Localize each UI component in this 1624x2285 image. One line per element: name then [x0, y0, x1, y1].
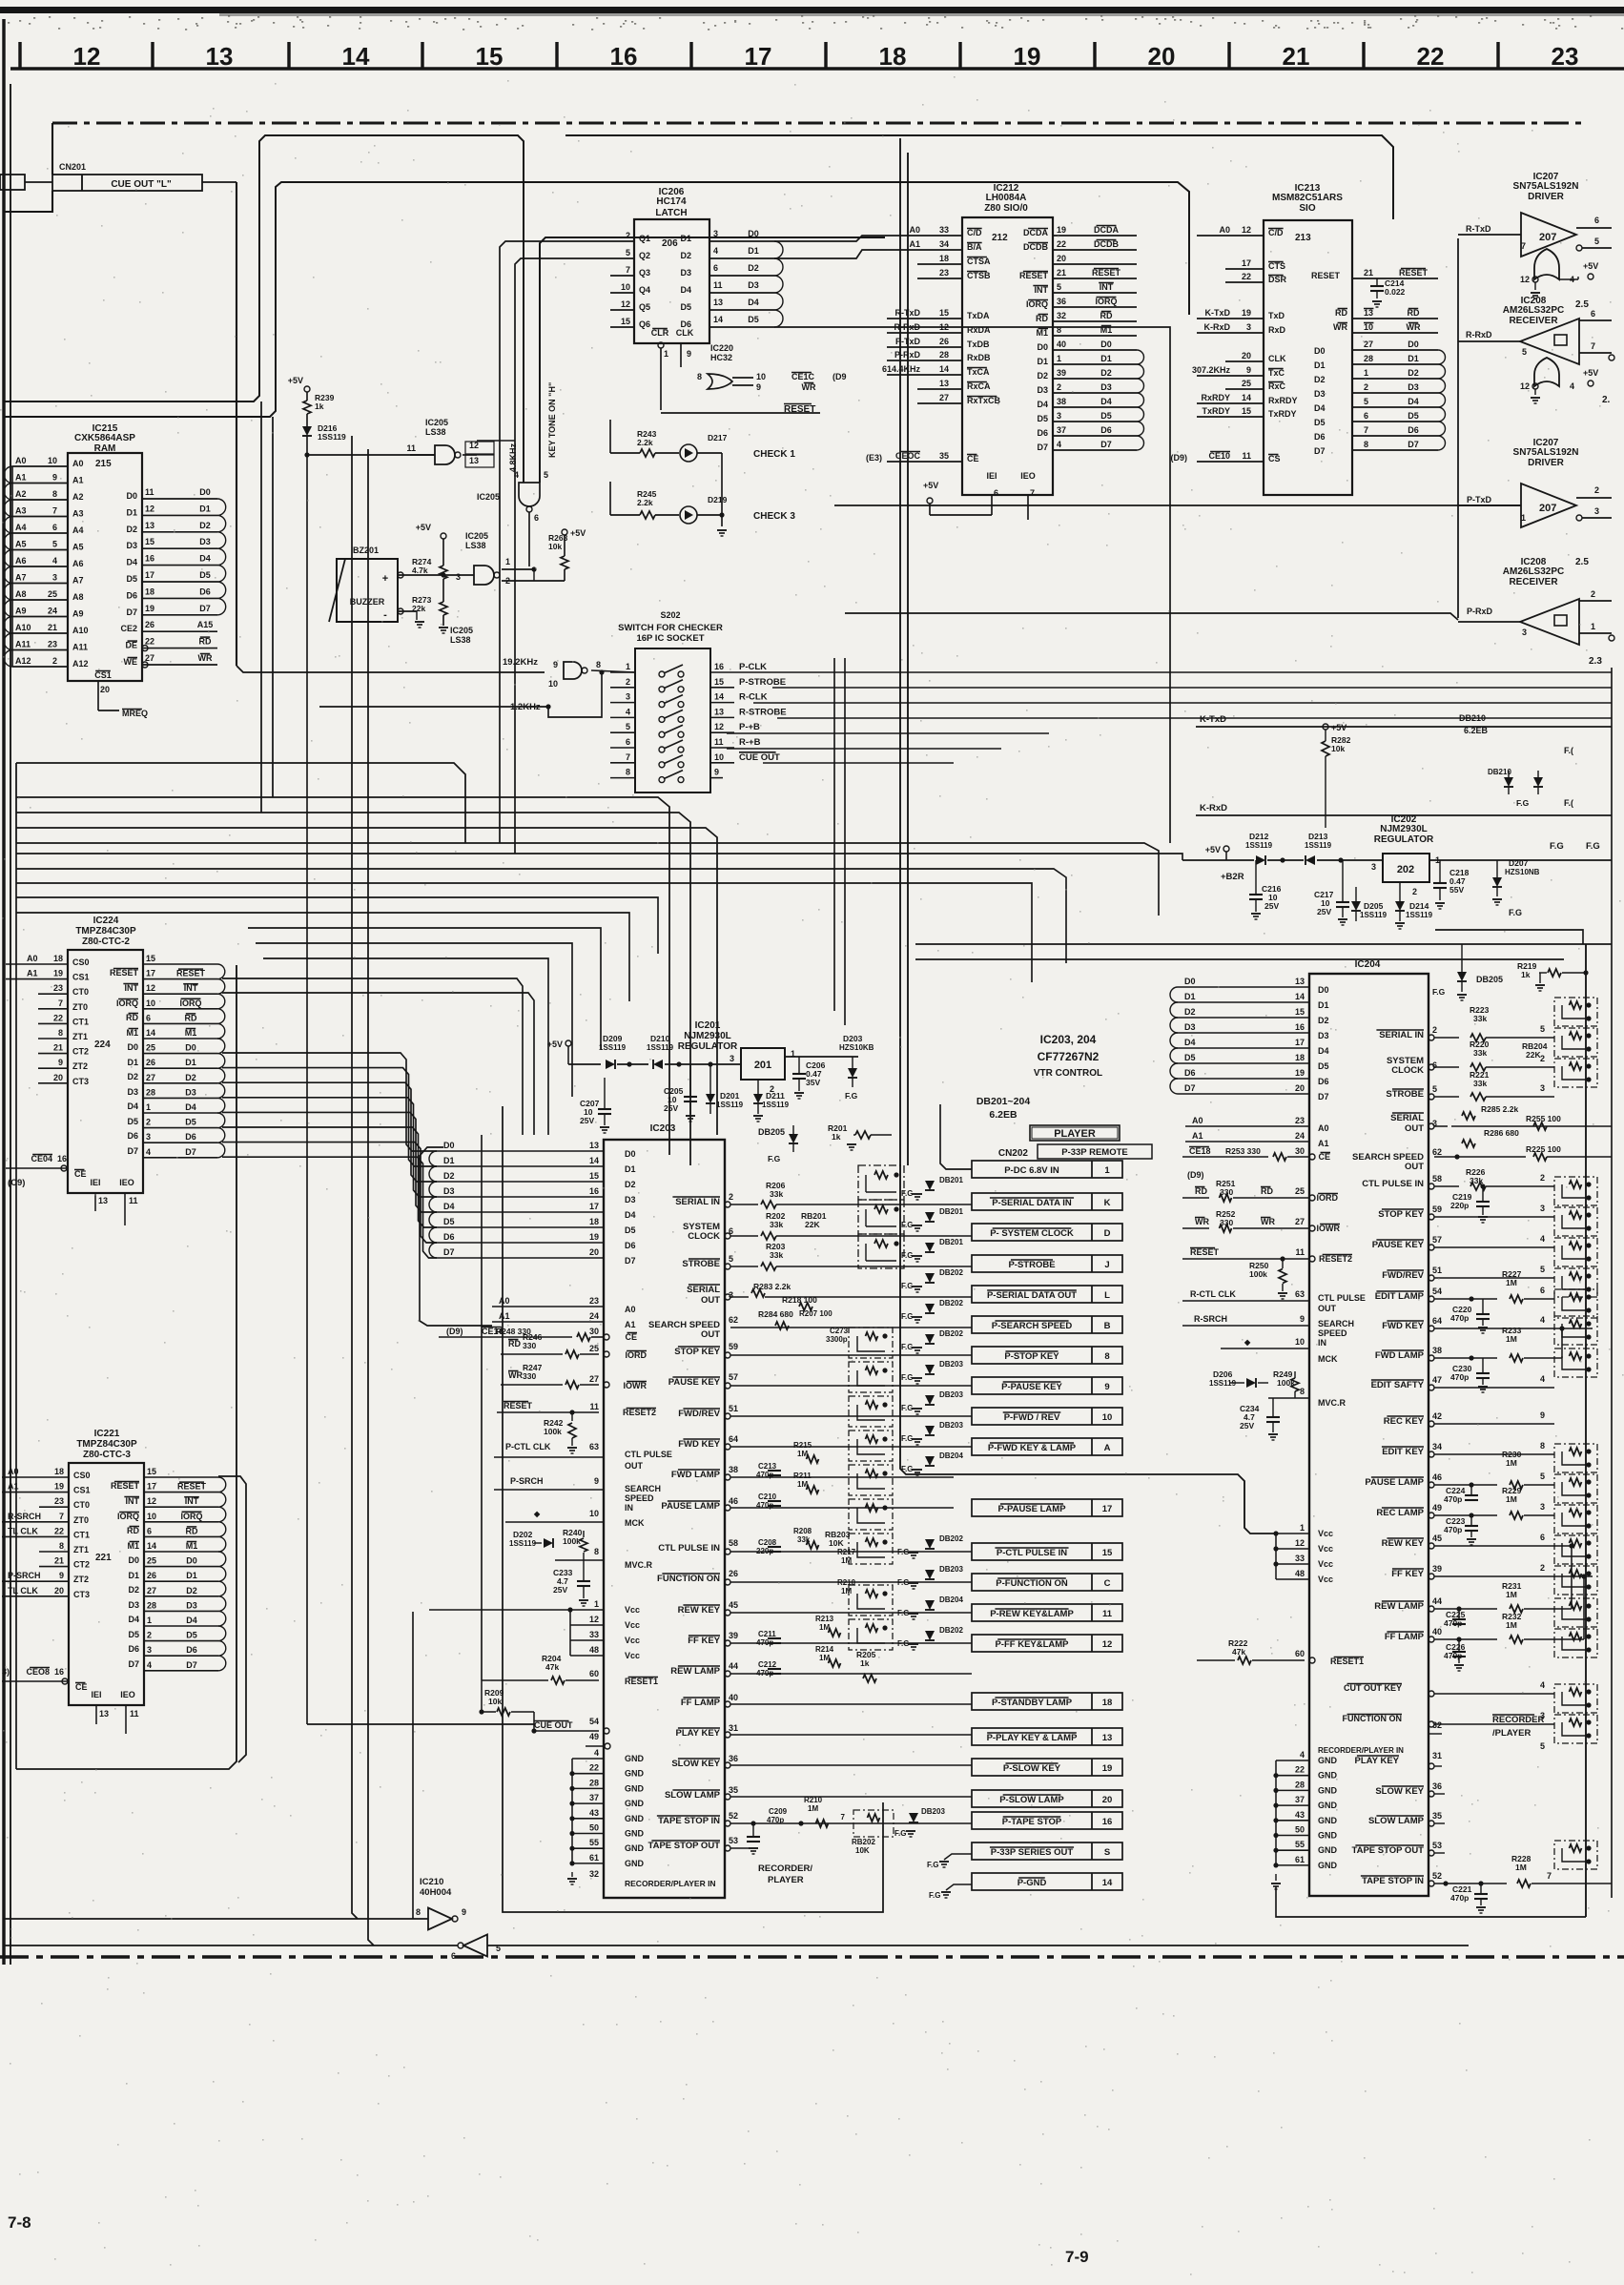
svg-text:5: 5: [1364, 397, 1368, 406]
svg-text:470p: 470p: [1450, 1372, 1469, 1382]
svg-text:20: 20: [1102, 1795, 1113, 1805]
svg-text:GND: GND: [1318, 1861, 1338, 1870]
svg-text:CTSB: CTSB: [967, 271, 991, 280]
svg-text:13: 13: [1364, 308, 1373, 318]
svg-text:2.5: 2.5: [1575, 299, 1589, 310]
svg-text:STOP KEY: STOP KEY: [674, 1347, 720, 1357]
svg-text:1M: 1M: [841, 1556, 852, 1565]
svg-text:RxTxCB: RxTxCB: [967, 396, 1001, 405]
bottom-left wire 2: [3, 1918, 5, 1920]
svg-text:18: 18: [589, 1217, 599, 1226]
svg-text:CEO8: CEO8: [26, 1667, 50, 1677]
svg-text:TMPZ84C30P: TMPZ84C30P: [75, 926, 136, 937]
svg-text:D6: D6: [186, 1645, 197, 1655]
wire P-STROBE: [772, 687, 1612, 689]
svg-text:Vcc: Vcc: [1318, 1529, 1333, 1538]
svg-text:215: 215: [95, 459, 112, 469]
svg-text:A8: A8: [15, 589, 27, 599]
svg-text:7: 7: [1591, 341, 1595, 351]
svg-text:17: 17: [146, 969, 155, 978]
svg-text:INT: INT: [184, 983, 198, 993]
svg-text:R214: R214: [815, 1645, 834, 1654]
svg-text:D2: D2: [680, 251, 691, 260]
connector P-CTL PULSE IN pin 15: [972, 1543, 1122, 1560]
svg-text:A10: A10: [72, 626, 89, 635]
svg-text:IC205: IC205: [477, 492, 500, 502]
svg-text:RESET: RESET: [1092, 268, 1121, 278]
svg-text:16: 16: [1295, 1022, 1305, 1032]
svg-text:14: 14: [1242, 393, 1251, 402]
svg-text:D4: D4: [625, 1210, 636, 1220]
svg-text:K-TxD: K-TxD: [1200, 714, 1226, 725]
svg-text:100k: 100k: [1249, 1269, 1267, 1279]
svg-text:GND: GND: [625, 1843, 645, 1853]
svg-text:R-SRCH: R-SRCH: [1194, 1314, 1227, 1324]
svg-text:17: 17: [589, 1202, 599, 1211]
svg-text:19: 19: [1014, 42, 1041, 71]
ruler line: [10, 67, 1624, 70]
wire 19.2KHz feed: [410, 658, 427, 672]
svg-text:DB204: DB204: [939, 1595, 963, 1604]
svg-text:2: 2: [626, 677, 630, 687]
svg-text:RECORDER/PLAYER IN: RECORDER/PLAYER IN: [1318, 1746, 1404, 1755]
svg-text:4: 4: [146, 1147, 151, 1157]
connector CN201 stub: [0, 175, 25, 190]
svg-text:3): 3): [2, 1667, 10, 1677]
svg-text:15: 15: [1242, 406, 1251, 416]
bus curls IC224 right: [217, 964, 225, 979]
svg-text:RD: RD: [126, 1013, 138, 1022]
svg-text:A: A: [1104, 1443, 1111, 1453]
svg-text:DSR: DSR: [1268, 275, 1287, 284]
svg-text:27: 27: [1295, 1217, 1305, 1226]
svg-text:D6: D6: [1314, 432, 1326, 442]
svg-text:RD: RD: [186, 1526, 198, 1535]
svg-text:10: 10: [1295, 1337, 1305, 1347]
svg-text:4: 4: [52, 556, 57, 566]
svg-text:100k: 100k: [563, 1536, 581, 1546]
svg-text:P-DC 6.8V IN: P-DC 6.8V IN: [1004, 1165, 1059, 1176]
svg-text:R-TxD: R-TxD: [1466, 224, 1491, 234]
svg-text:CUE OUT "L": CUE OUT "L": [111, 179, 172, 190]
svg-text:LS38: LS38: [425, 427, 446, 437]
IC207a pin5: [1576, 245, 1582, 251]
vertical x455 system: [433, 1155, 435, 1612]
svg-text:F.G: F.G: [1516, 798, 1530, 808]
svg-text:TxC: TxC: [1268, 368, 1285, 378]
svg-text:CT0: CT0: [72, 987, 89, 997]
svg-text:63: 63: [589, 1442, 599, 1451]
svg-text:GND: GND: [1318, 1801, 1338, 1810]
svg-text:D3: D3: [127, 1087, 138, 1097]
svg-text:18: 18: [939, 254, 949, 263]
svg-text:S: S: [1104, 1847, 1110, 1858]
svg-text:D1: D1: [1184, 992, 1196, 1001]
svg-text:STROBE: STROBE: [1386, 1089, 1424, 1100]
svg-text:RxRDY: RxRDY: [1201, 393, 1230, 402]
svg-text:A5: A5: [15, 540, 27, 549]
svg-text:33: 33: [1295, 1554, 1305, 1563]
svg-text:REW KEY: REW KEY: [678, 1605, 721, 1616]
svg-text:27: 27: [146, 1073, 155, 1082]
svg-text:RESET1: RESET1: [1330, 1657, 1364, 1666]
svg-text:AM26LS32PC: AM26LS32PC: [1503, 566, 1564, 577]
svg-text:19: 19: [1057, 225, 1066, 235]
svg-text:37: 37: [589, 1793, 599, 1802]
svg-text:GND: GND: [625, 1783, 645, 1793]
svg-text:TxD: TxD: [1268, 311, 1285, 320]
svg-text:3: 3: [1246, 322, 1251, 332]
svg-text:5: 5: [1057, 282, 1061, 292]
svg-text:1: 1: [1057, 354, 1061, 363]
svg-text:+5V: +5V: [547, 1040, 563, 1049]
svg-text:23: 23: [48, 640, 57, 649]
svg-text:8: 8: [1104, 1351, 1109, 1362]
wire IC204 EDIT SAFTY: [1429, 1385, 1434, 1390]
svg-text:D6: D6: [1037, 428, 1048, 438]
svg-text:D2: D2: [185, 1073, 196, 1082]
svg-text:64: 64: [1432, 1316, 1442, 1326]
svg-text:D1: D1: [1408, 354, 1419, 363]
svg-text:2: 2: [1540, 1563, 1545, 1573]
svg-text:22: 22: [145, 637, 154, 647]
vertical wire serial column: [1457, 238, 1459, 618]
svg-text:HC174: HC174: [656, 196, 687, 207]
svg-text:P-SLOW LAMP: P-SLOW LAMP: [999, 1795, 1064, 1805]
svg-text:5: 5: [1540, 1024, 1545, 1034]
bracket vertical IC221: [218, 1476, 246, 1762]
svg-text:1: 1: [146, 1102, 151, 1112]
svg-text:OUT: OUT: [1405, 1162, 1424, 1172]
svg-text:D4: D4: [1318, 1046, 1329, 1056]
svg-text:+5V: +5V: [1331, 723, 1346, 732]
svg-text:2: 2: [1591, 589, 1595, 599]
wire CN201 frame: [51, 123, 53, 175]
svg-text:57: 57: [1432, 1235, 1442, 1245]
svg-text:39: 39: [729, 1631, 738, 1640]
svg-text:9: 9: [52, 473, 57, 483]
svg-text:D4: D4: [128, 1615, 139, 1624]
svg-text:13: 13: [99, 1709, 109, 1719]
svg-text:A2: A2: [72, 492, 84, 502]
ruler tick 16: [555, 42, 558, 69]
svg-text:12: 12: [714, 722, 724, 731]
svg-text:CS1: CS1: [72, 973, 90, 982]
wire bus mid 3: [16, 869, 1066, 963]
wire IC206 D0 to IC212 A0: [774, 236, 887, 241]
svg-text:P-PAUSE LAMP: P-PAUSE LAMP: [997, 1504, 1066, 1514]
svg-text:34: 34: [1432, 1442, 1442, 1451]
svg-text:D211: D211: [766, 1091, 785, 1101]
svg-text:CS: CS: [1268, 454, 1281, 463]
svg-text:CS1: CS1: [73, 1486, 91, 1495]
wire bus mid 9: [263, 958, 548, 1135]
svg-text:3: 3: [1540, 1711, 1545, 1720]
svg-text:RESET2: RESET2: [1319, 1254, 1352, 1264]
svg-text:A10: A10: [15, 623, 31, 632]
svg-text:P-SERIAL DATA OUT: P-SERIAL DATA OUT: [987, 1290, 1077, 1301]
svg-text:D2: D2: [128, 1585, 139, 1595]
connector P-GND pin 14: [972, 1873, 1122, 1890]
svg-text:PLAYER: PLAYER: [1054, 1128, 1096, 1140]
svg-text:D0: D0: [1314, 346, 1326, 356]
svg-text:25V: 25V: [1317, 907, 1331, 916]
svg-text:20: 20: [1295, 1083, 1305, 1093]
svg-text:D6: D6: [185, 1132, 196, 1142]
svg-text:K-RxD: K-RxD: [1200, 803, 1227, 813]
svg-text:3: 3: [147, 1645, 152, 1655]
svg-text:IC210: IC210: [420, 1877, 443, 1887]
svg-text:RESET: RESET: [111, 1481, 140, 1491]
svg-text:1: 1: [1300, 1523, 1305, 1533]
svg-text:CE: CE: [1318, 1152, 1330, 1162]
svg-text:P-CTL CLK: P-CTL CLK: [505, 1442, 551, 1451]
svg-text:7: 7: [58, 998, 63, 1008]
svg-text:CT1: CT1: [72, 1017, 89, 1026]
bottom wire to right: [467, 1912, 753, 1925]
svg-text:REC LAMP: REC LAMP: [1376, 1508, 1424, 1518]
svg-text:10: 10: [147, 1512, 156, 1521]
svg-text:R211: R211: [793, 1472, 812, 1480]
bus loop IC203 D: [424, 1151, 437, 1246]
svg-text:12: 12: [621, 299, 630, 309]
wire IC204 STOP KEY: [1429, 1214, 1434, 1220]
svg-text:17: 17: [1242, 258, 1251, 268]
svg-text:1SS119: 1SS119: [716, 1101, 744, 1109]
connector P-SERIAL DATA OUT pin L: [972, 1286, 1122, 1303]
svg-text:6: 6: [626, 737, 630, 747]
svg-text:4: 4: [1300, 1750, 1305, 1760]
svg-text:REW LAMP: REW LAMP: [1374, 1601, 1424, 1612]
svg-text:+5V: +5V: [288, 376, 303, 385]
svg-text:D0: D0: [1037, 342, 1048, 352]
svg-text:D3: D3: [199, 537, 211, 546]
svg-text:C208: C208: [758, 1538, 777, 1547]
svg-text:ZT2: ZT2: [72, 1061, 88, 1071]
svg-text:21: 21: [54, 1556, 64, 1566]
svg-text:LH0084A: LH0084A: [986, 193, 1027, 203]
svg-text:KEY TONE ON "H": KEY TONE ON "H": [547, 382, 557, 458]
svg-text:6: 6: [146, 1013, 151, 1022]
svg-text:13: 13: [714, 707, 724, 716]
svg-text:RD: RD: [127, 1526, 139, 1535]
svg-text:20: 20: [1057, 254, 1066, 263]
svg-text:51: 51: [1432, 1266, 1442, 1275]
svg-text:R-RxD: R-RxD: [1466, 330, 1492, 340]
svg-text:J: J: [1104, 1260, 1109, 1270]
svg-text:D7: D7: [126, 607, 137, 617]
connector P-SEARCH SPEED pin B: [972, 1316, 1122, 1333]
svg-text:TL CLK: TL CLK: [8, 1526, 38, 1535]
svg-text:9: 9: [462, 1907, 466, 1917]
OR gate under IC207a: [1534, 249, 1559, 279]
svg-text:D7: D7: [1318, 1092, 1329, 1101]
wire from CUE OUT: [202, 181, 236, 183]
svg-text:D6: D6: [127, 1131, 138, 1141]
wire vertical K lines: [960, 232, 965, 727]
svg-text:A9: A9: [15, 607, 27, 616]
wire right bus 1: [1435, 930, 1583, 944]
svg-text:D206: D206: [1213, 1369, 1233, 1379]
relay boxes row cluster A: [858, 1165, 904, 1200]
svg-text:A6: A6: [72, 559, 84, 568]
svg-text:(D9): (D9): [1171, 453, 1188, 463]
svg-text:40H004: 40H004: [420, 1887, 452, 1898]
ruler tick 14: [287, 42, 290, 69]
svg-text:1: 1: [1364, 368, 1368, 378]
svg-text:20: 20: [54, 1586, 64, 1595]
svg-text:A0: A0: [499, 1296, 510, 1306]
svg-text:5: 5: [1540, 1472, 1545, 1481]
svg-text:33: 33: [939, 225, 949, 235]
svg-text:D1: D1: [127, 1058, 138, 1067]
svg-text:+: +: [382, 573, 388, 585]
wire IC203 TAPE STOP OUT stub: [725, 1845, 730, 1851]
A-bus from left: [16, 1299, 492, 1301]
svg-text:CT3: CT3: [73, 1590, 90, 1599]
svg-text:Q2: Q2: [639, 251, 650, 260]
svg-text:TxRDY: TxRDY: [1202, 406, 1230, 416]
wire left loop down: [16, 763, 465, 843]
svg-text:45: 45: [1432, 1534, 1442, 1543]
svg-text:F.G: F.G: [768, 1154, 781, 1163]
svg-text:25V: 25V: [1264, 901, 1279, 911]
connector P- SYSTEM CLOCK pin D: [972, 1224, 1122, 1241]
svg-text:D4: D4: [127, 1101, 138, 1111]
svg-text:IC204: IC204: [1355, 959, 1381, 970]
svg-text:EDIT LAMP: EDIT LAMP: [1375, 1291, 1425, 1302]
svg-text:B: B: [1104, 1321, 1111, 1331]
svg-text:10: 10: [146, 998, 155, 1008]
svg-text:9: 9: [1300, 1314, 1305, 1324]
svg-text:12: 12: [1520, 275, 1530, 284]
svg-text:A1: A1: [1318, 1139, 1329, 1148]
svg-text:P-STROBE: P-STROBE: [739, 677, 786, 688]
svg-text:1k: 1k: [315, 401, 324, 411]
connector P-FWD / REV pin 10: [972, 1408, 1122, 1425]
svg-text:CN202: CN202: [998, 1148, 1029, 1159]
svg-text:206: 206: [662, 238, 678, 249]
svg-text:D5: D5: [443, 1217, 455, 1226]
svg-text:47k: 47k: [545, 1662, 559, 1672]
svg-text:49: 49: [589, 1732, 599, 1741]
svg-text:IEI: IEI: [986, 471, 997, 481]
svg-text:DB205: DB205: [1476, 975, 1503, 984]
connector P-FUNCTION ON pin C: [972, 1574, 1122, 1591]
svg-text:SWITCH FOR CHECKER: SWITCH FOR CHECKER: [618, 623, 723, 633]
svg-text:RESET: RESET: [1019, 271, 1049, 280]
svg-text:A0: A0: [27, 954, 38, 963]
svg-text:32: 32: [589, 1869, 599, 1879]
svg-text:18: 18: [54, 1467, 64, 1476]
svg-text:D5: D5: [126, 574, 137, 584]
svg-text:11: 11: [406, 443, 416, 453]
svg-text:6: 6: [534, 513, 539, 523]
svg-text:SEARCH: SEARCH: [625, 1484, 661, 1493]
IC IC212 LH0084A Z80 SIO/0: [962, 217, 1053, 495]
svg-text:18: 18: [1102, 1698, 1113, 1708]
svg-text:26: 26: [729, 1569, 738, 1578]
svg-text:DB201: DB201: [939, 1207, 963, 1216]
svg-text:11: 11: [1295, 1247, 1305, 1257]
svg-text:307.2KHz: 307.2KHz: [1192, 365, 1231, 375]
svg-text:M1: M1: [127, 1541, 139, 1551]
svg-text:1: 1: [1104, 1165, 1110, 1176]
svg-text:DRIVER: DRIVER: [1528, 192, 1565, 202]
svg-text:17: 17: [1295, 1038, 1305, 1047]
svg-text:IN: IN: [1318, 1338, 1326, 1348]
svg-text:RxDB: RxDB: [967, 353, 991, 362]
svg-text:D2: D2: [748, 263, 759, 273]
svg-text:A1: A1: [499, 1311, 510, 1321]
svg-text:6.2EB: 6.2EB: [1464, 726, 1489, 735]
svg-text:P-REW KEY&LAMP: P-REW KEY&LAMP: [990, 1609, 1074, 1619]
wire left edge drop: [15, 763, 17, 843]
svg-text:D214: D214: [1409, 901, 1429, 911]
svg-text:D1: D1: [186, 1571, 197, 1580]
wire P-GND stub: [946, 1884, 972, 1890]
connector box CUE OUT L: [52, 175, 202, 191]
svg-text:19: 19: [145, 604, 154, 613]
svg-text:Q6: Q6: [639, 319, 650, 329]
svg-text:1: 1: [505, 557, 510, 566]
svg-text:+5V: +5V: [1205, 845, 1221, 854]
svg-text:P-SEARCH SPEED: P-SEARCH SPEED: [992, 1321, 1073, 1331]
svg-text:CTSA: CTSA: [967, 257, 991, 266]
svg-text:MCK: MCK: [1318, 1354, 1338, 1364]
svg-text:RD: RD: [199, 637, 212, 647]
svg-text:ZT1: ZT1: [73, 1545, 89, 1554]
svg-text:F.G: F.G: [1586, 841, 1600, 852]
svg-text:12: 12: [146, 983, 155, 993]
svg-text:13: 13: [469, 456, 479, 465]
svg-text:STOP KEY: STOP KEY: [1378, 1209, 1424, 1220]
wire R-+B: [727, 748, 1001, 750]
svg-text:16: 16: [610, 42, 638, 71]
svg-text:15: 15: [714, 677, 724, 687]
svg-text:17: 17: [745, 42, 772, 71]
svg-text:11: 11: [145, 487, 154, 497]
svg-text:4.8KHz: 4.8KHz: [508, 443, 518, 472]
diode DB203 tape stop: [909, 1813, 918, 1822]
svg-text:ZT2: ZT2: [73, 1575, 89, 1584]
wire bus mid 7: [248, 928, 601, 1049]
svg-text:P-GND: P-GND: [1018, 1878, 1047, 1888]
svg-text:DB202: DB202: [939, 1299, 963, 1307]
svg-text:P- SYSTEM CLOCK: P- SYSTEM CLOCK: [990, 1228, 1074, 1239]
svg-text:202: 202: [1397, 864, 1414, 875]
svg-text:D3: D3: [680, 268, 691, 278]
svg-text:IC221: IC221: [94, 1429, 120, 1439]
svg-text:D203: D203: [843, 1034, 863, 1043]
svg-text:◆: ◆: [533, 1510, 541, 1518]
svg-text:12: 12: [589, 1615, 599, 1624]
svg-text:P-FWD / REV: P-FWD / REV: [1004, 1412, 1060, 1423]
wire vertical drops near IC206: [1120, 296, 1612, 529]
svg-text:RESET: RESET: [177, 1482, 207, 1492]
svg-text:3: 3: [1540, 1083, 1545, 1093]
IC208a pin6: [1579, 319, 1612, 321]
svg-text:(D9): (D9): [1187, 1170, 1204, 1180]
svg-text:SPEED: SPEED: [625, 1493, 654, 1503]
svg-text:207: 207: [1539, 503, 1556, 514]
svg-text:CUE OUT: CUE OUT: [534, 1720, 573, 1730]
svg-text:22: 22: [1242, 272, 1251, 281]
svg-text:GND: GND: [1318, 1771, 1338, 1781]
svg-text:10K: 10K: [829, 1538, 844, 1548]
verticals between CTCs: [247, 887, 249, 1564]
svg-text:A9: A9: [72, 609, 84, 619]
